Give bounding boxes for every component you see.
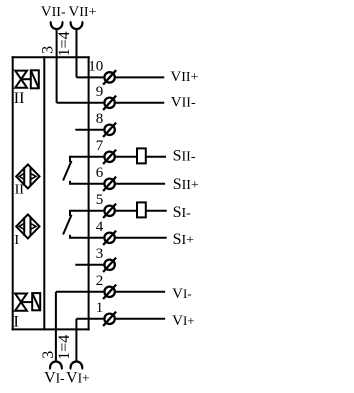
wire terminal 7 stub with contact end	[70, 157, 103, 162]
protection element channel II box with diagonal	[31, 70, 39, 88]
device box bottom edge	[12, 328, 90, 330]
svg-text:8: 8	[96, 111, 104, 127]
switch contact arm S2	[63, 161, 71, 181]
net label VI- right	[172, 286, 192, 302]
terminal 1 screw	[103, 312, 116, 326]
net label VII- right	[171, 94, 196, 110]
svg-text:VII-: VII-	[171, 94, 196, 110]
pin number 2	[96, 273, 104, 289]
svg-text:5: 5	[96, 192, 104, 208]
protection element channel I box with diagonal	[32, 293, 40, 310]
terminal 6 screw	[103, 177, 116, 191]
svg-text:VII+: VII+	[68, 4, 96, 20]
label I bottom component	[14, 314, 19, 331]
socket VI- bottom	[49, 361, 62, 369]
switch contact arm S1	[63, 215, 71, 235]
label II isolator	[15, 182, 25, 197]
socket VII+ top	[70, 22, 83, 30]
svg-text:1=4: 1=4	[56, 31, 73, 56]
isolator diamond channel II	[16, 164, 39, 188]
svg-text:7: 7	[96, 138, 104, 154]
svg-text:2: 2	[96, 273, 104, 289]
label VI- bottom	[44, 370, 65, 387]
svg-text:VI+: VI+	[172, 313, 195, 329]
svg-text:SII+: SII+	[173, 176, 199, 193]
wire terminal 2 stub	[56, 291, 104, 293]
net label VII+ right	[170, 69, 198, 85]
device box left edge	[12, 56, 14, 330]
pin number 10	[88, 59, 103, 75]
terminal 2 screw	[103, 285, 116, 299]
svg-text:I: I	[14, 314, 19, 331]
terminal 5 screw	[103, 204, 116, 218]
terminal 10 screw	[103, 70, 116, 84]
pin label 1=4 top rotated	[56, 31, 73, 56]
terminal 4 screw	[103, 231, 116, 245]
wire terminal 5 to fuse F1	[116, 210, 137, 212]
wire terminal 6 stub with contact end	[70, 181, 103, 184]
terminal 3 screw	[103, 258, 116, 272]
label II top component	[14, 90, 25, 107]
terminal 7 screw	[103, 150, 116, 164]
net label SII-	[173, 148, 196, 165]
wire terminal 4 to SI+ label	[116, 237, 167, 239]
svg-text:SI+: SI+	[173, 231, 195, 248]
label VII- top	[41, 4, 66, 20]
pin number 9	[96, 84, 104, 100]
svg-text:1=4: 1=4	[56, 335, 73, 360]
wire terminal 5 stub with contact end	[70, 211, 103, 216]
pin number 7	[96, 138, 104, 154]
svg-text:VII+: VII+	[170, 69, 198, 85]
svg-text:10: 10	[88, 59, 103, 75]
wire fuse F1 to SI- label	[146, 210, 167, 212]
protection element channel II bowtie	[15, 71, 31, 88]
pin number 6	[96, 165, 104, 181]
wire pin3 bottom from terminal 2 to VI- socket	[55, 292, 57, 362]
protection element channel I bowtie	[15, 294, 32, 311]
wire terminal 10 stub	[77, 76, 104, 78]
svg-text:9: 9	[96, 84, 104, 100]
wire pin1=4 bottom from terminal 1 to VI+ socket	[75, 319, 77, 362]
pin number 3	[96, 246, 104, 262]
pin label 1=4 bottom rotated	[56, 335, 73, 360]
svg-text:VII-: VII-	[41, 4, 66, 20]
wire terminal 9 stub	[57, 102, 104, 104]
device box top edge	[12, 56, 90, 58]
wire terminal 6 to SII+ label	[116, 183, 165, 185]
svg-text:4: 4	[96, 219, 104, 235]
wire pin3 top from VII- socket to terminal 9	[56, 29, 58, 103]
net label VI+ right	[172, 313, 195, 329]
device box right edge terminal bus	[88, 56, 90, 330]
svg-text:3: 3	[40, 46, 57, 54]
fuse F1	[137, 202, 146, 217]
svg-text:SI-: SI-	[173, 204, 192, 221]
net label SI+	[173, 231, 195, 248]
pin number 5	[96, 192, 104, 208]
pin label 3 bottom rotated	[40, 351, 57, 359]
svg-text:6: 6	[96, 165, 104, 181]
terminal 8 screw	[103, 123, 116, 137]
svg-text:SII-: SII-	[173, 148, 196, 165]
net label SII+	[173, 176, 199, 193]
wire terminal 3 stub	[75, 264, 103, 266]
label VI+ bottom	[66, 370, 90, 387]
svg-text:VI-: VI-	[44, 370, 65, 387]
socket VI+ bottom	[70, 361, 83, 369]
wire terminal 8 stub	[75, 129, 103, 131]
wire terminal 1 to VI+ label	[116, 318, 165, 320]
label I isolator	[14, 233, 19, 248]
isolator diamond channel I	[16, 214, 39, 238]
fuse F2	[137, 148, 146, 163]
wire pin1=4 top from VII+ socket to terminal 10	[76, 29, 78, 77]
svg-text:VI+: VI+	[66, 370, 90, 387]
wire terminal 10 to VII+ label	[116, 76, 165, 78]
wire terminal 9 to VII- label	[116, 102, 165, 104]
svg-text:3: 3	[96, 246, 104, 262]
svg-text:II: II	[15, 182, 25, 197]
socket VII- top	[50, 22, 63, 30]
wire terminal 7 to fuse F2	[116, 156, 137, 158]
terminal 9 screw	[103, 96, 116, 110]
svg-text:II: II	[14, 90, 25, 107]
wire terminal 4 stub with contact end	[70, 235, 103, 238]
net label SI-	[173, 204, 192, 221]
svg-text:VI-: VI-	[172, 286, 192, 302]
pin number 4	[96, 219, 104, 235]
device box internal divider	[43, 56, 45, 330]
svg-text:1: 1	[96, 300, 104, 316]
pin number 1	[96, 300, 104, 316]
pin label 3 top rotated	[40, 46, 57, 54]
wire fuse F2 to SII- label	[146, 156, 166, 158]
wire terminal 2 to VI- label	[116, 291, 165, 293]
pin number 8	[96, 111, 104, 127]
wire terminal 1 stub	[76, 318, 103, 320]
svg-text:I: I	[14, 233, 19, 248]
svg-text:3: 3	[40, 351, 57, 359]
label VII+ top	[68, 4, 96, 20]
